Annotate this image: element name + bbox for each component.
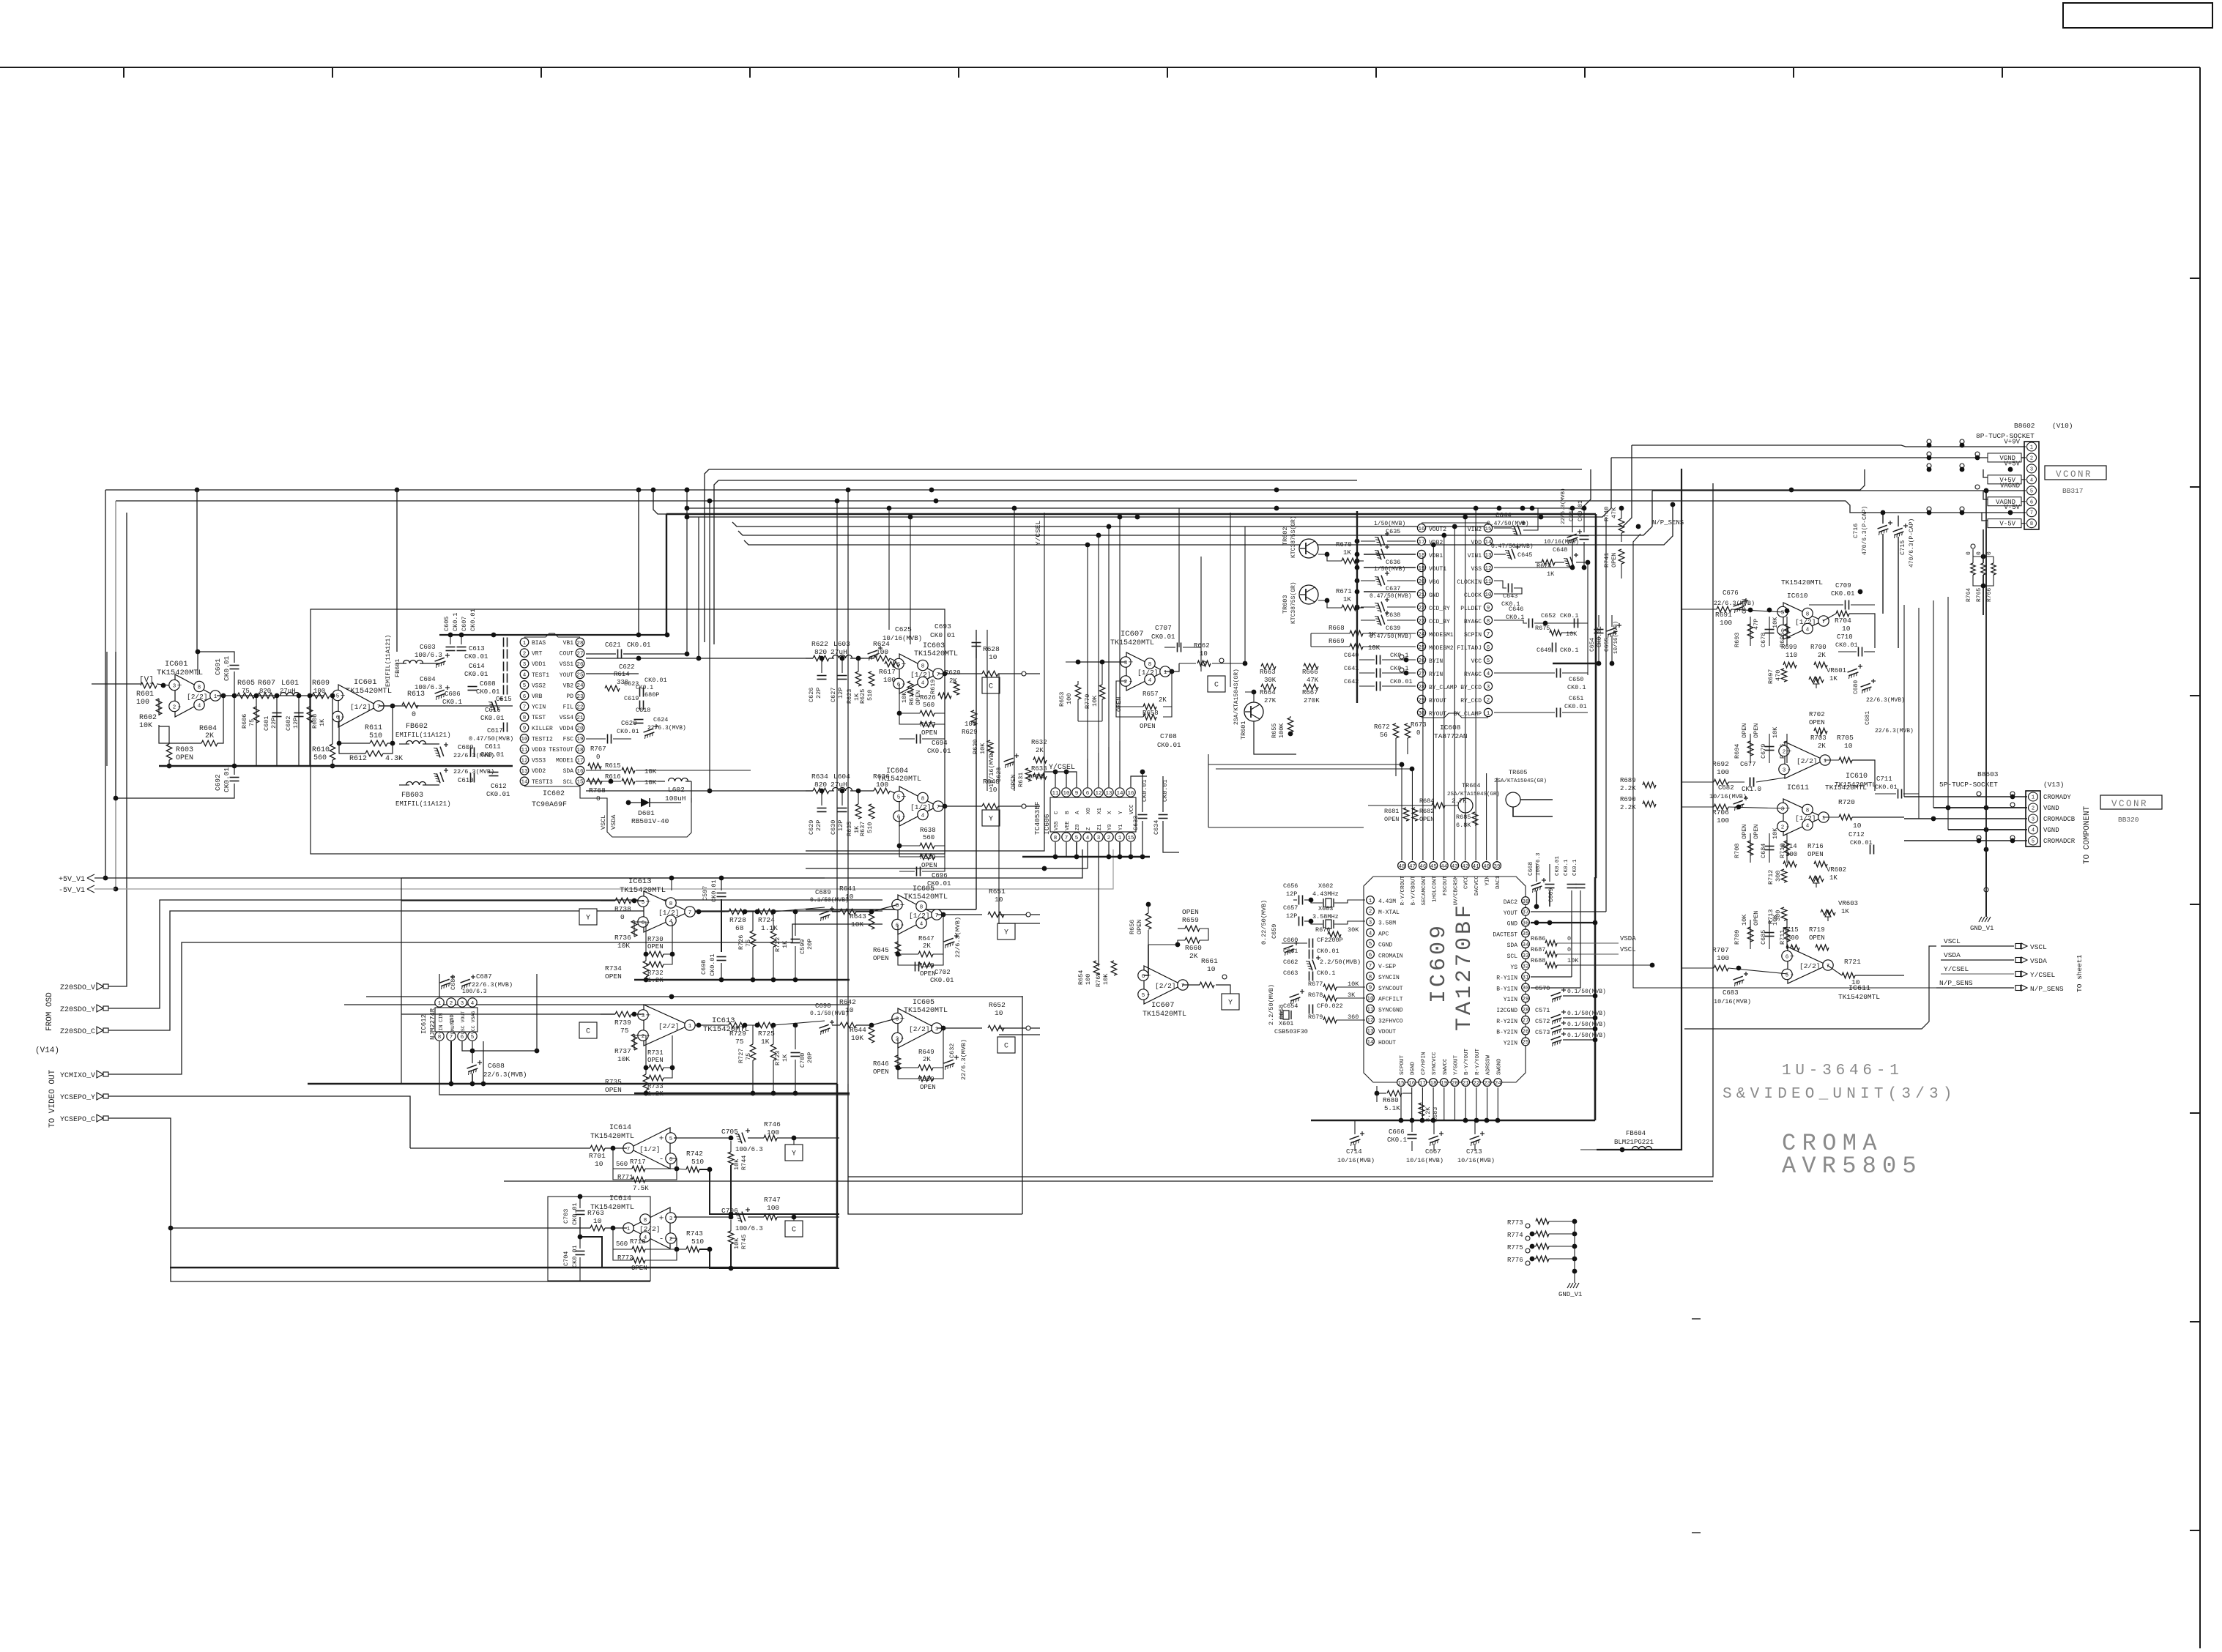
- capacitor C677: [1740, 761, 1761, 793]
- svg-text:R740: R740: [1603, 507, 1610, 521]
- IC608 thick rail: [1355, 511, 1416, 703]
- svg-text:OPEN: OPEN: [1753, 911, 1760, 926]
- capacitor C646: [1494, 606, 1588, 628]
- svg-text:7: 7: [627, 1147, 631, 1153]
- svg-text:560: 560: [923, 834, 934, 841]
- pot VR603: [1821, 900, 1858, 921]
- svg-text:R660: R660: [1185, 944, 1202, 952]
- svg-text:SWGND: SWGND: [1496, 1058, 1502, 1075]
- capacitor C636: [1375, 545, 1416, 566]
- svg-text:40: 40: [1483, 864, 1490, 870]
- svg-text:C702: C702: [934, 969, 951, 976]
- svg-text:C686: C686: [450, 975, 457, 990]
- op-amp IC601b label: [346, 678, 392, 696]
- svg-text:R741: R741: [1603, 553, 1610, 568]
- resistor R605: [237, 680, 255, 699]
- wire SDA out: [586, 770, 751, 771]
- VSDA VSCL cross wires: [1619, 943, 1941, 950]
- svg-text:2: 2: [173, 704, 177, 710]
- resistor R726: [737, 931, 756, 950]
- svg-text:OPEN: OPEN: [1809, 934, 1825, 942]
- resistor R655: [1271, 716, 1293, 738]
- svg-text:4: 4: [1148, 678, 1152, 684]
- svg-text:8: 8: [644, 1218, 647, 1224]
- svg-text:5: 5: [1142, 993, 1145, 999]
- resistor R670: [1318, 541, 1364, 564]
- resistor R626/R638: [920, 827, 936, 849]
- resistor R771: [617, 1174, 649, 1192]
- resistor R739: [614, 1011, 631, 1035]
- op-amp U IC610b: [1779, 742, 1830, 778]
- svg-text:CK0.01: CK0.01: [710, 879, 718, 902]
- svg-text:27uH: 27uH: [831, 648, 847, 656]
- right connector verticals: [1904, 522, 1986, 917]
- svg-text:CK0.01: CK0.01: [1555, 855, 1561, 876]
- svg-text:10: 10: [1207, 965, 1216, 973]
- svg-text:CK0.01: CK0.01: [627, 641, 650, 649]
- capacitor C708: [1157, 732, 1181, 749]
- connector B8602 body: [2024, 442, 2039, 529]
- svg-text:R730: R730: [647, 936, 664, 943]
- svg-text:10K: 10K: [1102, 973, 1110, 985]
- svg-text:C630: C630: [830, 820, 837, 835]
- svg-text:4: 4: [921, 813, 925, 819]
- wire vert x542: [396, 490, 398, 652]
- wire IC614a plus: [674, 1136, 733, 1141]
- svg-text:VCONR: VCONR: [2056, 469, 2092, 480]
- svg-text:C676: C676: [1723, 589, 1739, 597]
- resistor R625/R637: [859, 804, 874, 836]
- label BB320: [2118, 816, 2139, 824]
- wire vert x1158: [835, 488, 1022, 1214]
- svg-text:1.1K: 1.1K: [761, 924, 778, 932]
- svg-text:CVCC: CVCC: [1464, 876, 1470, 890]
- right mid horizontals: [1242, 469, 1750, 675]
- capacitor C693: [930, 622, 981, 658]
- svg-text:OPEN: OPEN: [1419, 816, 1434, 823]
- svg-text:X602: X602: [1318, 882, 1333, 890]
- wire y656 upper: [714, 480, 1357, 644]
- svg-text:R646: R646: [873, 1060, 889, 1068]
- inductor L601: [280, 680, 300, 696]
- resistor R677: [1308, 981, 1365, 990]
- svg-text:SDA: SDA: [1507, 942, 1518, 949]
- svg-text:R725: R725: [758, 1030, 775, 1038]
- thick rail IC613 1/2: [634, 978, 850, 983]
- resistor R688: [1531, 957, 1654, 968]
- svg-text:470: 470: [1775, 670, 1782, 681]
- wire IC601b out: [379, 705, 513, 707]
- top border tick 2: [332, 67, 333, 78]
- connector B8603 title: [1939, 770, 2065, 789]
- IC608 pins left: [1417, 524, 1425, 716]
- capacitor C610: [434, 768, 494, 784]
- svg-text:7: 7: [1369, 964, 1372, 970]
- svg-text:VSS3: VSS3: [532, 758, 546, 764]
- svg-text:R731: R731: [647, 1049, 664, 1057]
- svg-text:+: +: [900, 1015, 905, 1024]
- svg-text:14: 14: [1367, 1040, 1374, 1046]
- svg-text:(V10): (V10): [2052, 422, 2073, 430]
- title CROMA: [1782, 1130, 1883, 1157]
- svg-text:100/6.3: 100/6.3: [735, 1146, 763, 1153]
- IC607 out vertical: [1230, 513, 1245, 687]
- svg-text:5: 5: [897, 795, 901, 800]
- svg-text:110: 110: [1786, 652, 1797, 659]
- svg-text:R607: R607: [258, 680, 275, 688]
- svg-text:0.1/50(MVB): 0.1/50(MVB): [1567, 1011, 1606, 1017]
- svg-text:C703: C703: [562, 1209, 570, 1224]
- svg-text:I2CGND: I2CGND: [1496, 1008, 1517, 1014]
- svg-text:1: 1: [1487, 711, 1490, 717]
- svg-text:27: 27: [1418, 671, 1424, 677]
- wire IC614a fb: [613, 1148, 686, 1180]
- IC602 top rail: [439, 633, 669, 638]
- svg-text:Y2IN: Y2IN: [1504, 1040, 1517, 1046]
- svg-text:75: 75: [745, 940, 752, 947]
- IC608 outputs to IC609 verticals: [1369, 513, 1422, 776]
- svg-text:C668: C668: [1528, 862, 1534, 876]
- svg-text:TK15420MTL: TK15420MTL: [620, 886, 666, 895]
- resistor R695: [1772, 617, 1790, 647]
- resistor R683: [1419, 1103, 1439, 1122]
- svg-text:OPEN: OPEN: [1741, 723, 1748, 738]
- wire VGND bus: [1611, 457, 2026, 458]
- label N/P_SENS right: [1652, 519, 1684, 527]
- svg-text:25: 25: [1522, 1040, 1529, 1046]
- svg-text:IC608: IC608: [1440, 723, 1461, 732]
- capacitor C638: [1355, 593, 1416, 619]
- dot x938 y669: [685, 488, 690, 493]
- IC614b box: [548, 1194, 650, 1281]
- svg-text:37: 37: [1522, 910, 1528, 916]
- capacitor C632: [943, 1039, 967, 1080]
- svg-text:FROM OSD: FROM OSD: [45, 992, 54, 1031]
- svg-text:FILTADJ: FILTADJ: [1457, 645, 1482, 652]
- svg-text:C714: C714: [1346, 1148, 1362, 1156]
- svg-text:R724: R724: [758, 916, 775, 924]
- svg-text:OPEN: OPEN: [647, 1057, 664, 1064]
- svg-text:26: 26: [1418, 658, 1425, 664]
- resistor R700: [1810, 644, 1827, 668]
- IC608 pins right: [1484, 524, 1492, 716]
- svg-text:27uH: 27uH: [831, 781, 847, 789]
- svg-text:3: 3: [523, 662, 527, 668]
- capacitor C682: [1709, 784, 1748, 811]
- svg-text:R699: R699: [1781, 644, 1797, 651]
- svg-text:R663: R663: [1260, 669, 1276, 676]
- svg-text:R686: R686: [1531, 935, 1545, 942]
- svg-text:100: 100: [767, 1128, 779, 1136]
- svg-text:TR601: TR601: [1240, 721, 1247, 740]
- box label Y IC607b: [1222, 994, 1239, 1010]
- svg-text:100: 100: [1717, 768, 1729, 776]
- svg-text:C654: C654: [1589, 638, 1596, 652]
- svg-text:C711: C711: [1876, 775, 1892, 783]
- capacitor C642: [1344, 678, 1416, 691]
- svg-text:270K: 270K: [1304, 697, 1320, 704]
- svg-text:C573: C573: [1535, 1029, 1550, 1036]
- IC609 top wires: [1402, 827, 1550, 882]
- svg-text:VSDA: VSDA: [1620, 935, 1636, 942]
- svg-text:R733: R733: [647, 1083, 664, 1090]
- svg-text:C654: C654: [1283, 1002, 1298, 1010]
- svg-text:R634: R634: [811, 773, 828, 781]
- label TK15420MTL IC610: [1781, 578, 1823, 600]
- svg-text:IC601: IC601: [354, 678, 377, 687]
- svg-text:C713: C713: [1466, 1148, 1482, 1156]
- resistors R764 R765 R766: [1966, 529, 1996, 615]
- IC612 wires: [439, 974, 850, 1095]
- top border tick 1: [123, 67, 125, 78]
- wire left col x146: [106, 652, 108, 766]
- resistor R643: [850, 912, 874, 929]
- resistor R629: [962, 710, 978, 736]
- R773 group right rail: [1572, 1221, 1578, 1274]
- svg-text:VSCL: VSCL: [1944, 937, 1961, 945]
- top border tick 7: [1375, 67, 1377, 78]
- svg-text:R712: R712: [1767, 870, 1775, 885]
- svg-text:R655: R655: [1271, 723, 1278, 738]
- right border tick 2: [2190, 486, 2200, 488]
- svg-text:R745: R745: [740, 1235, 748, 1249]
- mid long verticals: [889, 508, 1014, 924]
- svg-text:KTC3875S(GR): KTC3875S(GR): [1290, 516, 1297, 558]
- svg-text:R656: R656: [1129, 920, 1136, 934]
- svg-text:1: 1: [438, 1001, 442, 1007]
- svg-text:-: -: [1790, 971, 1795, 980]
- svg-text:TK15420MTL: TK15420MTL: [877, 775, 921, 784]
- svg-text:0: 0: [1976, 551, 1983, 555]
- resistor R701: [589, 1145, 606, 1168]
- mid horizontal y1130: [1208, 754, 1414, 827]
- svg-text:560: 560: [313, 754, 327, 762]
- wire right thick x2178 down: [1594, 877, 1597, 1120]
- VCONR box top: [2045, 466, 2106, 480]
- svg-text:24: 24: [1495, 1081, 1502, 1087]
- IC609 right pin wires: [1531, 517, 1606, 988]
- wire mid bus 3: [732, 445, 1632, 527]
- resistor R648: [918, 962, 936, 978]
- svg-text:C715: C715: [1899, 540, 1906, 555]
- svg-text:BB320: BB320: [2118, 816, 2139, 824]
- capacitor C667b: [1406, 1131, 1443, 1164]
- capacitor C613: [464, 638, 508, 661]
- IC602 name: [532, 790, 567, 809]
- svg-text:8: 8: [438, 1035, 442, 1041]
- svg-text:C687: C687: [476, 973, 492, 981]
- svg-text:R763: R763: [587, 1209, 604, 1217]
- svg-text:20: 20: [576, 726, 584, 732]
- resistor R628/R640: [982, 778, 1000, 809]
- svg-text:2: 2: [1781, 825, 1785, 830]
- resistor R624/R636: [873, 640, 890, 661]
- wire YCSEPO_C: [105, 1118, 650, 1281]
- wire YCSEPO_Y: [105, 1096, 410, 1148]
- svg-text:27: 27: [1522, 1019, 1528, 1024]
- resistor R615: [605, 762, 657, 775]
- svg-text:13: 13: [1105, 791, 1112, 797]
- resistor R703: [1810, 731, 1827, 750]
- svg-text:VB2: VB2: [563, 682, 574, 689]
- svg-text:39: 39: [1494, 864, 1501, 870]
- capacitor C654 C655: [1589, 615, 1621, 666]
- capacitor C689: [810, 889, 849, 921]
- resistor R656: [1129, 913, 1151, 934]
- svg-text:26: 26: [1522, 1029, 1529, 1035]
- svg-text:SYNCGND: SYNCGND: [1378, 1008, 1403, 1014]
- sheet refs: [1936, 937, 2064, 993]
- capacitor C616: [480, 685, 508, 723]
- svg-text:2SA/KTA1504S(GR): 2SA/KTA1504S(GR): [1447, 792, 1500, 797]
- svg-text:TESTI2: TESTI2: [532, 736, 553, 743]
- svg-text:R774: R774: [1507, 1232, 1523, 1239]
- signal chain IC601a to IC601b: [234, 695, 341, 696]
- svg-text:C655: C655: [1604, 638, 1610, 652]
- svg-text:Y: Y: [1004, 929, 1008, 937]
- svg-text:6: 6: [1369, 953, 1372, 959]
- svg-text:TR604: TR604: [1462, 782, 1481, 789]
- svg-text:DAC2: DAC2: [1504, 899, 1517, 906]
- svg-text:22/6.3(MVB): 22/6.3(MVB): [1875, 728, 1914, 734]
- svg-text:-: -: [659, 1235, 664, 1244]
- capacitor C659: [1260, 900, 1298, 956]
- capacitor C619: [624, 691, 659, 710]
- svg-text:10: 10: [593, 1217, 602, 1225]
- svg-text:GND: GND: [1507, 921, 1518, 928]
- svg-text:2: 2: [2032, 806, 2035, 812]
- svg-text:100: 100: [1717, 816, 1729, 825]
- svg-text:Y: Y: [1118, 811, 1124, 814]
- svg-text:IC613: IC613: [712, 1016, 735, 1025]
- svg-text:R700: R700: [1810, 644, 1827, 651]
- svg-text:-: -: [177, 703, 182, 712]
- svg-text:IC601: IC601: [165, 660, 188, 669]
- svg-text:MODESM1: MODESM1: [1429, 632, 1454, 639]
- resistor R660: [1185, 937, 1202, 960]
- svg-text:8: 8: [1487, 619, 1490, 625]
- svg-text:R728: R728: [729, 916, 746, 924]
- svg-text:1: 1: [1824, 759, 1827, 764]
- capacitor C611: [480, 723, 508, 759]
- top border tick 4: [749, 67, 751, 78]
- svg-text:C681: C681: [1865, 711, 1871, 725]
- svg-text:[2/2]: [2/2]: [1799, 962, 1821, 970]
- op-amp U IC607b: [1138, 966, 1188, 1004]
- svg-text:R611: R611: [365, 724, 382, 732]
- input row wires IC603 IC604: [586, 656, 813, 791]
- IC609 name: [1427, 902, 1477, 1031]
- svg-text:RB501V-40: RB501V-40: [631, 817, 669, 825]
- svg-text:47P: 47P: [1753, 619, 1760, 630]
- connector B8602 pin labels: [1988, 439, 2026, 528]
- svg-text:B-Y1IN: B-Y1IN: [1496, 986, 1517, 992]
- op-amp U IC6132/2: [638, 1005, 695, 1046]
- svg-text:C666: C666: [1389, 1128, 1405, 1136]
- IC606 top wires: [1044, 741, 1147, 787]
- svg-text:B-Y/YOUT: B-Y/YOUT: [1464, 1048, 1470, 1075]
- svg-text:11: 11: [1052, 791, 1059, 797]
- svg-text:OPEN: OPEN: [1807, 851, 1824, 858]
- svg-text:OPEN: OPEN: [873, 955, 889, 962]
- svg-text:B-Y/CBOUT: B-Y/CBOUT: [1411, 876, 1416, 906]
- resistor R734/R735: [605, 1074, 649, 1094]
- svg-text:C609: C609: [458, 744, 474, 751]
- svg-text:1: 1: [1822, 816, 1826, 822]
- svg-text:CK0.1: CK0.1: [1564, 859, 1569, 876]
- svg-text:8: 8: [1369, 975, 1372, 981]
- svg-text:12: 12: [521, 758, 527, 764]
- svg-text:Y/GOUT: Y/GOUT: [1454, 1054, 1460, 1075]
- box label C: [579, 1022, 597, 1038]
- svg-text:C: C: [989, 683, 993, 691]
- svg-text:OPEN: OPEN: [176, 754, 193, 762]
- svg-text:R701: R701: [589, 1152, 606, 1160]
- svg-text:DACTEST: DACTEST: [1493, 931, 1517, 938]
- svg-text:7: 7: [1181, 983, 1185, 989]
- svg-text:12P: 12P: [837, 820, 844, 831]
- svg-text:KILLER: KILLER: [532, 726, 553, 732]
- op-amp U IC611a: [1777, 799, 1829, 836]
- port YCSEPO_Y: [60, 1093, 108, 1102]
- svg-text:DGND: DGND: [1411, 1061, 1416, 1075]
- wire right loop B: [848, 483, 1713, 1177]
- op-amp U IC607a: [1121, 652, 1170, 691]
- svg-text:C571: C571: [1535, 1007, 1550, 1014]
- wire vert x938 drop: [639, 490, 689, 656]
- svg-text:C648: C648: [1553, 546, 1567, 554]
- svg-text:1K: 1K: [1841, 908, 1849, 915]
- op-amp U IC605 1/2: [892, 895, 942, 934]
- svg-text:C679: C679: [1760, 744, 1767, 759]
- svg-text:25: 25: [1418, 645, 1425, 651]
- IC612 pin names: [439, 1011, 476, 1034]
- svg-text:[1/2]: [1/2]: [639, 1145, 661, 1153]
- capacitor C644: [1487, 508, 1538, 537]
- svg-text:SYNCOUT: SYNCOUT: [1378, 986, 1403, 992]
- svg-text:R-Y1IN: R-Y1IN: [1496, 975, 1517, 982]
- svg-text:+: +: [659, 1135, 664, 1144]
- resistor R718: [616, 1238, 646, 1252]
- capacitor C714: [1337, 1131, 1375, 1164]
- junction dots mid bus: [887, 506, 1641, 529]
- svg-text:V-SEP: V-SEP: [1378, 964, 1396, 970]
- svg-text:35: 35: [1522, 931, 1529, 937]
- svg-text:R694: R694: [1734, 744, 1741, 759]
- svg-text:CK0.1: CK0.1: [636, 685, 653, 691]
- resistor R601: [136, 682, 157, 707]
- svg-text:0: 0: [596, 754, 600, 761]
- resistor R770: [1084, 685, 1105, 709]
- svg-text:C644: C644: [1495, 512, 1512, 519]
- svg-text:CCD_RY: CCD_RY: [1429, 606, 1450, 612]
- svg-text:FB604: FB604: [1626, 1130, 1646, 1137]
- resistor R709: [1734, 914, 1753, 945]
- resistor R699: [1781, 644, 1797, 668]
- IC606 bus lines mid: [806, 772, 1088, 871]
- svg-text:Y/CSEL: Y/CSEL: [2030, 971, 2056, 979]
- svg-text:L602: L602: [668, 786, 685, 794]
- svg-text:Y/CSEL: Y/CSEL: [1944, 965, 1969, 973]
- wire thick top rail to IC608: [666, 513, 1596, 516]
- svg-text:R773: R773: [1507, 1219, 1523, 1227]
- svg-text:+: +: [646, 1012, 651, 1021]
- svg-text:10: 10: [1853, 822, 1862, 830]
- capacitor C709: [1809, 582, 1875, 610]
- svg-text:CK0.01: CK0.01: [486, 791, 510, 798]
- svg-text:22/6.3(MVB): 22/6.3(MVB): [1866, 697, 1905, 704]
- svg-text:RY_CCD: RY_CCD: [1460, 698, 1482, 704]
